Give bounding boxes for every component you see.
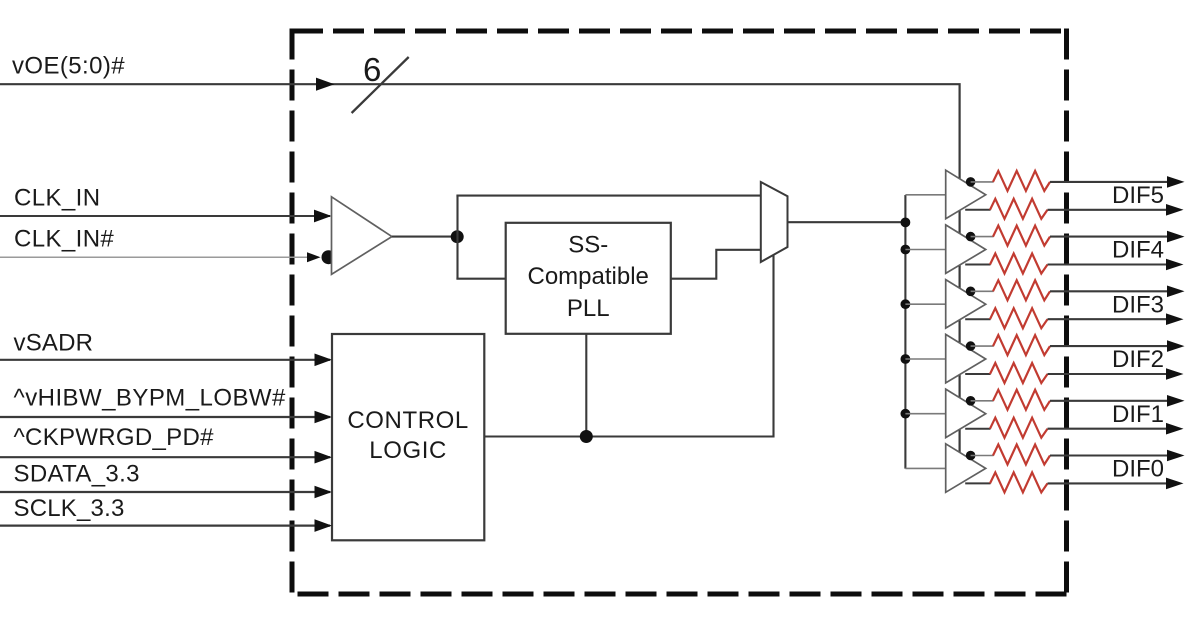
wire lower output Q1 — [965, 428, 990, 430]
resistor lower R3b — [990, 308, 1048, 328]
PLL block U2 — [506, 223, 671, 334]
enable dot buffer Q2 — [966, 341, 976, 351]
arrowhead CLK_IN# — [307, 252, 321, 262]
wire DIF0 comp out — [1048, 482, 1170, 484]
svg-text:^CKPWRGD_PD#: ^CKPWRGD_PD# — [14, 424, 215, 451]
wire lower output Q2 — [965, 373, 990, 375]
arrowhead DIF1 comp — [1166, 423, 1184, 435]
wire DIF5 true out — [1050, 181, 1170, 183]
wire input stub buffer 3 — [905, 303, 946, 305]
wire DIF0 true out — [1050, 454, 1170, 456]
wire DIF2 true out — [1050, 345, 1170, 347]
svg-text:vSADR: vSADR — [14, 330, 94, 357]
svg-text:DIF3: DIF3 — [1112, 291, 1164, 318]
svg-text:PLL: PLL — [567, 295, 610, 322]
wire DIF4 comp out — [1048, 263, 1170, 265]
svg-text:CONTROL: CONTROL — [347, 407, 469, 434]
wire input stub buffer 5 — [905, 413, 946, 415]
svg-text:6: 6 — [363, 51, 381, 88]
arrowhead DIF5 true — [1167, 176, 1185, 188]
arrowhead DIF0 true — [1167, 450, 1185, 462]
arrowhead ^CKPWRGD_PD# — [315, 451, 333, 464]
wire DIF2 comp out — [1048, 373, 1170, 375]
wire input stub buffer 1 — [905, 194, 946, 196]
svg-text:CLK_IN#: CLK_IN# — [14, 226, 114, 253]
wire input stub buffer 4 — [905, 358, 946, 360]
arrowhead DIF2 true — [1167, 340, 1185, 352]
wire CLK_IN — [0, 215, 330, 217]
resistor lower R2b — [990, 363, 1048, 383]
arrowhead SDATA_3.3 — [315, 486, 333, 499]
arrowhead DIF3 true — [1167, 286, 1185, 298]
wire upper output Q3 — [971, 290, 994, 292]
enable dot buffer Q3 — [966, 287, 976, 297]
wire DIF4 true out — [1050, 236, 1170, 238]
wire upper output Q5 — [971, 181, 994, 183]
svg-text:SS-: SS- — [568, 232, 608, 259]
output buffer Q4 — [946, 225, 986, 274]
svg-text:DIF1: DIF1 — [1112, 401, 1164, 428]
output buffer Q5 — [946, 170, 986, 219]
resistor upper R2a — [993, 335, 1050, 355]
control logic block U4 — [332, 334, 484, 540]
arrowhead DIF4 comp — [1166, 259, 1184, 271]
wire vOE(5:0)# bus — [0, 84, 960, 452]
node B junction dot — [580, 430, 593, 443]
enable dot buffer Q1 — [966, 396, 976, 406]
resistor lower R1b — [990, 418, 1048, 438]
wire DIF5 comp out — [1048, 209, 1170, 211]
wire ^CKPWRGD_PD# — [0, 456, 330, 458]
node tap dot buffer 5 — [901, 409, 911, 419]
wire upper output Q4 — [971, 236, 994, 238]
svg-text:SDATA_3.3: SDATA_3.3 — [14, 460, 140, 487]
enable dot buffer Q5 — [966, 177, 976, 187]
node tap dot buffer 2 — [901, 245, 911, 255]
wire PLL control tap — [585, 334, 587, 437]
wire CLK_IN# — [0, 256, 319, 258]
svg-text:DIF0: DIF0 — [1112, 456, 1164, 483]
wire split vertical — [456, 196, 458, 279]
wire PLL output to mux — [671, 250, 761, 279]
resistor lower R4b — [990, 254, 1048, 274]
output buffer Q3 — [946, 280, 986, 329]
output buffer Q0 — [946, 444, 986, 493]
arrowhead CLK_IN — [314, 210, 332, 223]
wire upper output Q2 — [971, 345, 994, 347]
wire clock distribution vertical — [904, 195, 906, 469]
svg-text:^vHIBW_BYPM_LOBW#: ^vHIBW_BYPM_LOBW# — [14, 385, 287, 412]
arrowhead DIF0 comp — [1166, 478, 1184, 490]
wire DIF3 comp out — [1048, 318, 1170, 320]
wire lower output Q4 — [965, 264, 990, 266]
wire lower output Q3 — [965, 318, 990, 320]
wire bypass to mux — [456, 195, 760, 197]
input buffer U1 — [332, 197, 392, 274]
chip boundary dashed border — [292, 29, 1067, 597]
wire input stub buffer 2 — [905, 249, 946, 251]
resistor upper R3a — [993, 280, 1050, 300]
arrowhead DIF1 true — [1167, 395, 1185, 407]
mux U3 — [761, 182, 788, 262]
wire vSADR — [0, 359, 330, 361]
arrowhead SCLK_3.3 — [315, 519, 333, 532]
wire upper output Q0 — [971, 455, 994, 457]
wire lower output Q0 — [965, 482, 990, 484]
node tap dot buffer 4 — [901, 354, 911, 364]
output buffer Q1 — [946, 389, 986, 438]
wire lower output Q5 — [965, 209, 990, 211]
wire SCLK_3.3 — [0, 524, 330, 526]
svg-text:LOGIC: LOGIC — [369, 437, 447, 464]
resistor lower R5b — [990, 199, 1048, 219]
bus slash — [352, 57, 409, 113]
arrowhead DIF3 comp — [1166, 313, 1184, 325]
arrowhead ^vHIBW_BYPM_LOBW# — [315, 411, 333, 424]
arrowhead vOE entering chip — [316, 78, 335, 91]
wire to PLL input — [456, 278, 506, 280]
resistor upper R1a — [993, 390, 1050, 410]
arrowhead vSADR — [315, 354, 333, 367]
resistor upper R0a — [993, 445, 1050, 465]
resistor upper R5a — [993, 171, 1050, 191]
wire DIF3 true out — [1050, 290, 1170, 292]
output buffer Q2 — [946, 334, 986, 383]
inverting input dot — [322, 250, 336, 264]
svg-text:SCLK_3.3: SCLK_3.3 — [14, 495, 125, 522]
wire mux output — [788, 221, 906, 223]
arrowhead DIF4 true — [1167, 231, 1185, 243]
svg-text:Compatible: Compatible — [527, 263, 648, 290]
svg-text:DIF2: DIF2 — [1112, 346, 1164, 373]
wire input stub buffer 6 — [905, 467, 946, 469]
svg-text:DIF4: DIF4 — [1112, 237, 1164, 264]
wire DIF1 comp out — [1048, 428, 1170, 430]
svg-text:DIF5: DIF5 — [1112, 182, 1164, 209]
node tap dot buffer 3 — [901, 299, 911, 309]
node A junction dot — [451, 230, 464, 243]
resistor lower R0b — [990, 472, 1048, 492]
resistor upper R4a — [993, 226, 1050, 246]
arrowhead DIF5 comp — [1166, 204, 1184, 216]
wire mux select from control logic — [484, 256, 773, 437]
wire SDATA_3.3 — [0, 491, 330, 493]
enable dot buffer Q0 — [966, 451, 976, 461]
svg-text:CLK_IN: CLK_IN — [14, 185, 100, 212]
wire U1 output — [392, 236, 458, 238]
node mux output junction dot — [901, 218, 911, 228]
wire ^vHIBW_BYPM_LOBW# — [0, 416, 330, 418]
enable dot buffer Q4 — [966, 232, 976, 242]
wire upper output Q1 — [971, 400, 994, 402]
arrowhead DIF2 comp — [1166, 368, 1184, 380]
wire DIF1 true out — [1050, 400, 1170, 402]
svg-text:vOE(5:0)#: vOE(5:0)# — [12, 53, 125, 80]
